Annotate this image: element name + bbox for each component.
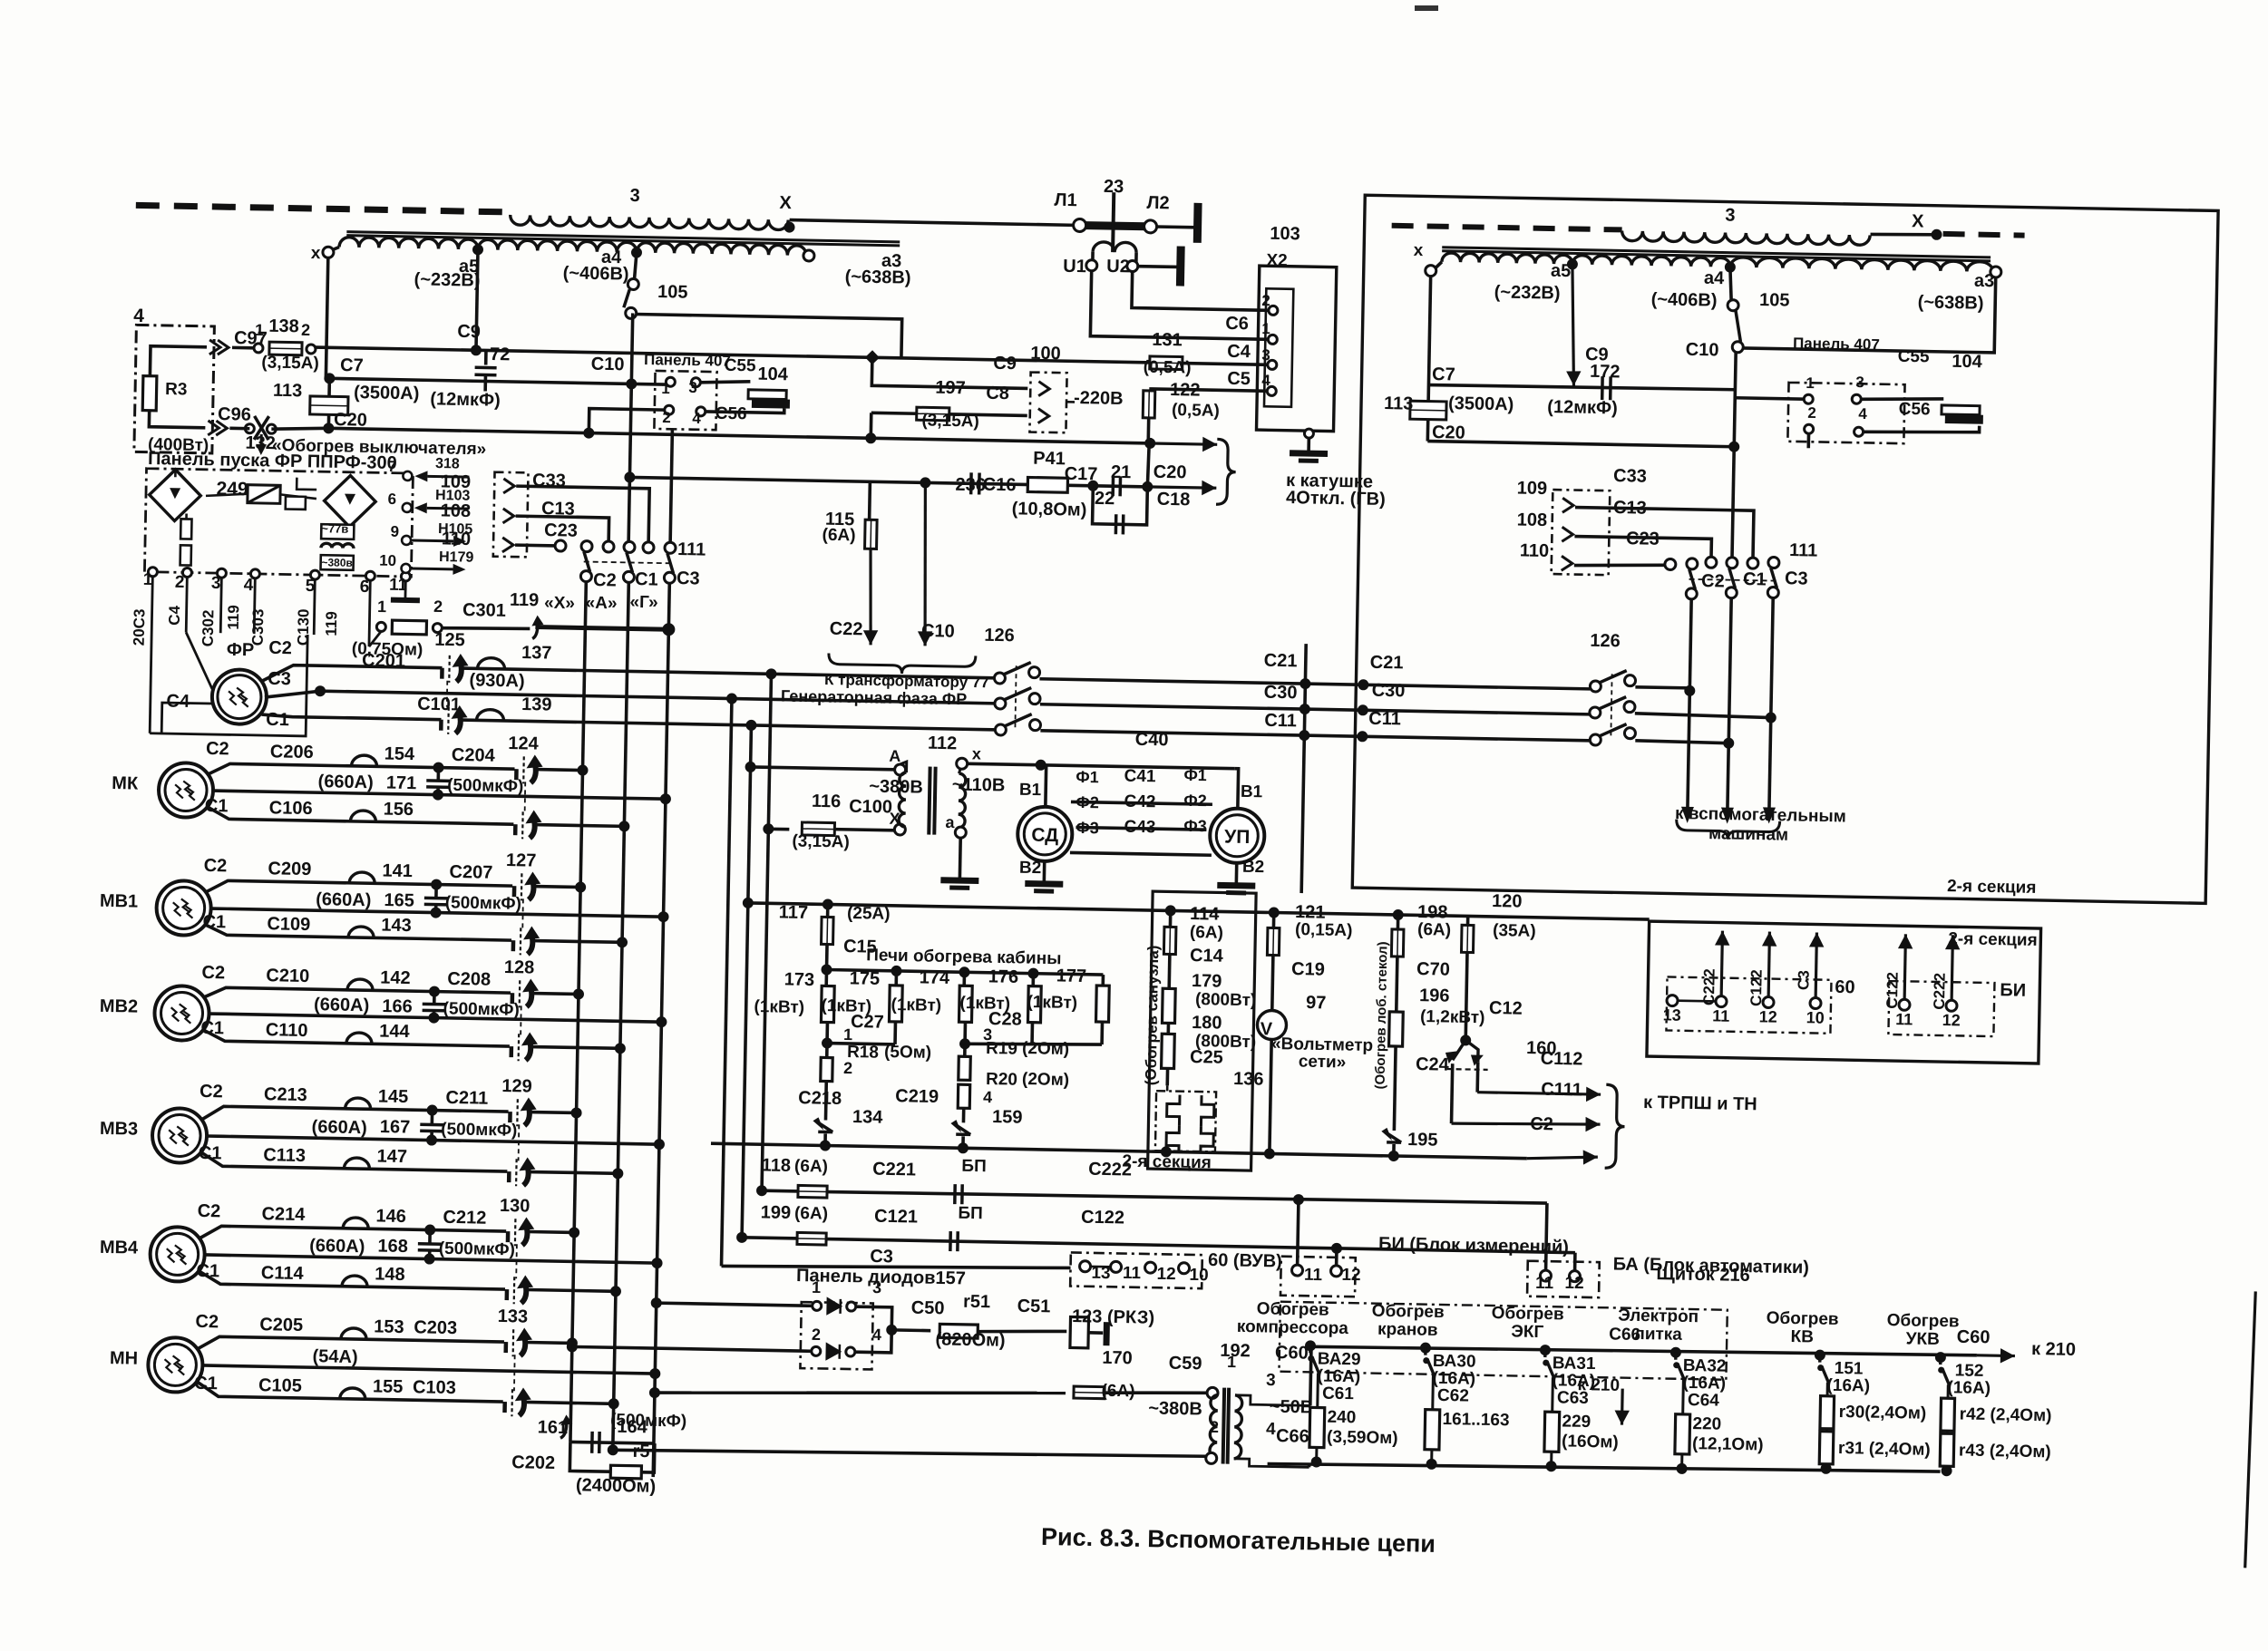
bottom contacts <box>580 570 591 581</box>
svg-text:170: 170 <box>1102 1348 1133 1369</box>
double switch 160 <box>1453 1040 1478 1063</box>
svg-text:3: 3 <box>211 574 221 593</box>
svg-text:124: 124 <box>508 733 540 754</box>
brace k TRPSh <box>1605 1084 1626 1168</box>
transformer 112 secondary <box>958 773 966 828</box>
svg-text:C20: C20 <box>1153 462 1187 483</box>
svg-text:(25А): (25А) <box>847 904 891 924</box>
МВ2 C1 wire <box>203 1030 510 1046</box>
terminal U1 <box>1086 260 1097 271</box>
motor UP <box>1210 808 1265 863</box>
svg-text:103: 103 <box>1270 224 1300 245</box>
terminal C23 <box>555 540 566 551</box>
svg-text:C9: C9 <box>457 322 481 342</box>
svg-text:180: 180 <box>1192 1013 1222 1034</box>
svg-text:C206: C206 <box>270 742 314 762</box>
svg-text:к 210: к 210 <box>2031 1339 2076 1360</box>
svg-text:U1: U1 <box>1063 257 1086 277</box>
svg-text:C2: C2 <box>268 638 292 658</box>
svg-text:(16А): (16А) <box>1826 1376 1870 1396</box>
svg-text:C222: C222 <box>1700 968 1718 1005</box>
svg-text:x: x <box>1414 241 1424 260</box>
svg-text:12: 12 <box>1341 1266 1361 1285</box>
svg-text:~380в: ~380в <box>321 556 353 569</box>
capacitor 171 500mkF <box>433 762 443 773</box>
svg-text:318: 318 <box>435 456 460 471</box>
svg-text:СД: СД <box>1031 825 1058 847</box>
wire C97 to fuse 138 <box>232 346 254 350</box>
svg-text:153: 153 <box>374 1316 404 1337</box>
vertical X5 (C1 phase) <box>742 725 751 1238</box>
svg-text:C214: C214 <box>261 1204 306 1225</box>
wire X to L1 <box>790 220 1075 226</box>
МВ4 C1 wire <box>199 1271 505 1289</box>
wire C10 arrow <box>918 482 936 646</box>
svg-text:(~406В): (~406В) <box>1651 289 1718 310</box>
svg-text:C16: C16 <box>983 475 1017 496</box>
svg-text:6: 6 <box>360 578 370 597</box>
svg-text:C56: C56 <box>1899 400 1931 420</box>
svg-text:171: 171 <box>386 773 417 794</box>
svg-text:13: 13 <box>1091 1264 1111 1283</box>
svg-text:C105: C105 <box>258 1375 302 1396</box>
svg-text:C201: C201 <box>362 651 405 672</box>
dashed connector BI (sec2) <box>1888 981 1994 1036</box>
svg-text:C1: C1 <box>1743 569 1767 589</box>
sec2 x wire down <box>1427 277 1430 442</box>
wire from bus to fuse 120 <box>1466 916 1470 927</box>
svg-text:Обогрев: Обогрев <box>1372 1302 1445 1322</box>
svg-text:118: 118 <box>762 1155 792 1176</box>
svg-text:С301: С301 <box>462 600 506 621</box>
svg-text:(6А): (6А) <box>822 526 855 546</box>
svg-text:C218: C218 <box>798 1088 842 1109</box>
wire C8 <box>871 411 919 415</box>
svg-text:Панель 407: Панель 407 <box>644 351 731 370</box>
svg-text:(54А): (54А) <box>312 1346 357 1367</box>
ground bar right of L2 <box>1156 225 1196 228</box>
sec2 wires C33 C13 C23 <box>1574 508 1754 558</box>
voltmeter 97 <box>1257 1010 1287 1040</box>
current transformer 23 winding <box>1093 242 1136 253</box>
svg-text:«Г»: «Г» <box>629 593 658 613</box>
svg-text:C110: C110 <box>266 1020 308 1041</box>
FR C3 wire <box>265 690 996 711</box>
svg-text:C12: C12 <box>1489 998 1523 1019</box>
svg-text:136: 136 <box>1233 1069 1264 1090</box>
svg-text:С66: С66 <box>1609 1325 1640 1345</box>
heater column fuse 117 <box>823 898 833 909</box>
svg-text:Обогрев: Обогрев <box>1767 1309 1839 1329</box>
svg-text:C11: C11 <box>1368 709 1401 730</box>
svg-text:С61: С61 <box>1322 1384 1355 1404</box>
svg-text:12: 12 <box>1564 1274 1584 1293</box>
wire C33 <box>515 486 649 543</box>
svg-text:C2: C2 <box>1701 571 1725 591</box>
svg-text:133: 133 <box>498 1306 529 1327</box>
svg-text:4: 4 <box>872 1326 881 1344</box>
svg-text:C208: C208 <box>447 969 491 990</box>
capacitor 166 500mkF <box>429 986 440 996</box>
МВ1 C2 wire <box>206 880 512 898</box>
svg-text:(12,1Ом): (12,1Ом) <box>1692 1434 1764 1454</box>
svg-text:147: 147 <box>376 1146 407 1167</box>
k 210 arrow at plitka <box>1614 1389 1630 1425</box>
wire diamond down to C9 connector line <box>871 357 1028 388</box>
svg-text:C28: C28 <box>988 1009 1022 1030</box>
svg-text:С64: С64 <box>1688 1391 1720 1411</box>
terminal a3 <box>803 250 814 261</box>
bus A <box>613 582 629 1450</box>
svg-text:В1: В1 <box>1019 781 1042 800</box>
svg-text:116: 116 <box>812 792 842 812</box>
svg-text:C5: C5 <box>1227 369 1251 389</box>
wire U2 to ground bar <box>1138 265 1178 268</box>
sec2 wire pin2 down <box>1806 433 1810 448</box>
svg-text:7: 7 <box>387 458 396 475</box>
bottom bus Shchitok <box>1268 1459 1941 1476</box>
pprf pins 7/6/9/10 with arrows <box>403 471 412 481</box>
node on C20 bus (panel 407 pin2 branch) <box>583 427 594 438</box>
arrow C96 <box>208 421 227 435</box>
svg-text:4: 4 <box>1261 372 1270 389</box>
svg-text:«А»: «А» <box>585 594 617 614</box>
svg-text:229: 229 <box>1562 1412 1591 1432</box>
svg-text:2: 2 <box>1807 404 1816 422</box>
svg-text:БИ (Блок измерений): БИ (Блок измерений) <box>1378 1234 1569 1258</box>
svg-text:C2: C2 <box>201 963 225 983</box>
svg-text:ЭКГ: ЭКГ <box>1511 1322 1543 1342</box>
svg-text:141: 141 <box>382 860 413 881</box>
svg-text:C27: C27 <box>851 1012 884 1033</box>
svg-text:131: 131 <box>1152 330 1183 351</box>
sec2 panel 407 <box>1787 383 1904 443</box>
svg-text:167: 167 <box>380 1117 411 1138</box>
sec2 brace <box>1676 820 1779 840</box>
svg-text:119: 119 <box>323 611 340 636</box>
VUV connector 60 <box>1070 1252 1202 1288</box>
bus1 C4 line <box>316 347 1269 364</box>
svg-text:C42: C42 <box>1124 792 1155 812</box>
svg-text:138: 138 <box>268 316 299 337</box>
resistor r5 0,75Om <box>376 622 385 631</box>
svg-text:(0,5А): (0,5А) <box>1144 358 1192 378</box>
sec2 arrows down <box>1681 807 1694 823</box>
2-ya sekciya heater box <box>1148 891 1257 1170</box>
svg-text:а5: а5 <box>1551 261 1572 281</box>
svg-text:C1: C1 <box>266 710 289 730</box>
svg-text:129: 129 <box>501 1076 532 1097</box>
pin stubs with cable labels <box>150 577 152 733</box>
svg-text:В1: В1 <box>1241 782 1263 801</box>
wire C5 to pin4 <box>1149 389 1267 391</box>
svg-text:В2: В2 <box>1242 858 1265 877</box>
wire x down to C7 line <box>326 257 327 378</box>
125 mechanical link <box>446 681 449 707</box>
svg-text:C25: C25 <box>1190 1047 1223 1068</box>
wire C23 <box>515 543 555 547</box>
svg-text:112: 112 <box>928 733 958 754</box>
svg-text:165: 165 <box>384 890 414 911</box>
sec2 C56 <box>1864 423 1980 433</box>
svg-text:C213: C213 <box>264 1084 307 1105</box>
wire x to SD B1 <box>968 763 1041 764</box>
svg-text:C7: C7 <box>1432 364 1455 384</box>
fuse 138 (3,15A) <box>269 342 302 355</box>
vertical X6 (C2 phase) <box>762 674 771 1190</box>
svg-text:2: 2 <box>812 1326 821 1344</box>
svg-text:УП: УП <box>1224 827 1251 849</box>
svg-text:(500мкФ): (500мкФ) <box>441 1120 518 1141</box>
svg-text:C122: C122 <box>1081 1208 1124 1229</box>
svg-text:Н103: Н103 <box>435 488 471 504</box>
sec2 windings <box>1426 265 1436 276</box>
svg-text:146: 146 <box>375 1206 406 1227</box>
svg-text:11: 11 <box>1712 1006 1729 1025</box>
svg-text:кранов: кранов <box>1377 1320 1438 1340</box>
diode row 1 <box>651 1297 662 1308</box>
svg-text:10: 10 <box>1806 1008 1825 1026</box>
svg-text:1: 1 <box>1261 320 1270 337</box>
svg-text:164: 164 <box>617 1417 648 1438</box>
svg-text:r42 (2,4Ом): r42 (2,4Ом) <box>1960 1404 2052 1425</box>
node C10 arrow branch <box>920 477 930 488</box>
svg-text:C112: C112 <box>1540 1049 1582 1070</box>
svg-text:C30: C30 <box>1372 681 1406 702</box>
sec2 wire pin1 <box>1735 398 1804 399</box>
svg-text:C2: C2 <box>593 570 617 590</box>
svg-text:U2: U2 <box>1106 257 1130 277</box>
sec2 vertical 105-C10 <box>1732 353 1736 558</box>
svg-text:Н105: Н105 <box>438 521 473 538</box>
svg-text:Обогрев: Обогрев <box>1886 1311 1959 1331</box>
svg-text:127: 127 <box>506 850 537 871</box>
C2 arrow to TRPSh <box>1527 1149 1598 1165</box>
heater 177 <box>1101 975 1105 986</box>
brace k katushke <box>1216 439 1236 504</box>
svg-text:C6: C6 <box>1225 314 1249 334</box>
svg-text:(660А): (660А) <box>311 1117 367 1138</box>
terminal U2 <box>1127 260 1138 271</box>
svg-text:11: 11 <box>1535 1274 1554 1293</box>
svg-text:C1: C1 <box>202 912 226 932</box>
svg-text:12: 12 <box>1759 1007 1777 1025</box>
FR motor <box>211 669 267 724</box>
fuse 115 (6A) wire C22 <box>868 481 871 520</box>
svg-text:2: 2 <box>433 597 443 616</box>
svg-text:(500мкФ): (500мкФ) <box>447 776 524 797</box>
svg-text:195: 195 <box>1407 1130 1438 1151</box>
МВ4 C3 wire <box>205 1255 657 1263</box>
FR C1 wire <box>262 714 442 720</box>
svg-text:C109: C109 <box>267 914 310 935</box>
svg-text:12: 12 <box>1942 1011 1961 1029</box>
svg-text:C1: C1 <box>200 1018 224 1038</box>
dashed connector 60 (sec2) <box>1666 976 1831 1033</box>
scan speck top <box>1415 5 1438 11</box>
svg-text:111: 111 <box>1789 540 1818 561</box>
Shchitok 216 dashed box <box>1279 1302 1727 1380</box>
svg-text:1: 1 <box>843 1025 852 1044</box>
svg-text:C121: C121 <box>874 1207 918 1228</box>
svg-text:220: 220 <box>1692 1414 1721 1434</box>
svg-text:C18: C18 <box>1157 490 1191 510</box>
svg-text:МВ2: МВ2 <box>100 996 139 1017</box>
svg-text:C20: C20 <box>334 410 367 431</box>
svg-text:(~406В): (~406В) <box>563 263 629 284</box>
node C10 <box>626 378 637 389</box>
МВ1 C1 wire <box>205 925 511 940</box>
svg-text:Ф2: Ф2 <box>1076 793 1099 811</box>
motor МВ2 <box>154 986 209 1041</box>
svg-text:R19: R19 <box>986 1039 1017 1059</box>
svg-text:(12мкФ): (12мкФ) <box>1547 397 1618 418</box>
svg-text:148: 148 <box>375 1264 405 1285</box>
vertical X4 (C3 phase) <box>722 699 732 1267</box>
svg-text:175: 175 <box>850 968 881 989</box>
FR wires left <box>150 632 307 736</box>
svg-text:C1: C1 <box>196 1261 219 1281</box>
svg-text:C221: C221 <box>872 1160 916 1180</box>
МВ3 C3 wire <box>207 1136 659 1144</box>
capacitor 236 C16 <box>971 472 979 494</box>
diode row 2 <box>567 1341 578 1352</box>
svg-text:(16А): (16А) <box>1947 1378 1991 1398</box>
svg-text:108: 108 <box>1517 510 1548 530</box>
svg-text:БИ: БИ <box>2000 980 2026 1001</box>
fuse 113 (3500A) <box>328 378 329 428</box>
wire C20 junction down to C18 junction <box>1147 443 1149 487</box>
ground under a <box>959 838 962 879</box>
svg-text:C4: C4 <box>166 692 190 712</box>
C112 arrow <box>1475 1063 1479 1093</box>
scan artifact line right edge <box>2245 1291 2256 1568</box>
svg-text:C1: C1 <box>199 1143 222 1163</box>
svg-text:2: 2 <box>1261 292 1270 309</box>
svg-text:72: 72 <box>490 345 511 364</box>
svg-text:C43: C43 <box>1124 818 1155 838</box>
svg-text:(6А): (6А) <box>794 1204 828 1224</box>
knife switch 23 (L1-L2) <box>1073 219 1085 231</box>
node C3 line to bus X4 <box>726 693 737 704</box>
svg-text:C21: C21 <box>1264 651 1298 672</box>
МВ4 C2 wire <box>200 1226 506 1244</box>
motor МН <box>148 1337 203 1393</box>
svg-text:С8: С8 <box>986 384 1009 403</box>
rectifier diamond 1 <box>150 470 201 521</box>
svg-text:C56: C56 <box>715 404 747 424</box>
chassis bar pin 11 <box>391 597 420 604</box>
sec2 switch 111 <box>1687 558 1698 569</box>
svg-text:Печи обогрева кабины: Печи обогрева кабины <box>866 946 1062 968</box>
heater 179 <box>1162 988 1175 1023</box>
svg-text:4: 4 <box>983 1088 992 1106</box>
svg-text:С62: С62 <box>1437 1386 1469 1406</box>
192 line 2 <box>608 1444 618 1455</box>
wire BA pin12 to C122 row <box>1573 1253 1577 1271</box>
internal wires pprf <box>174 469 177 477</box>
fuse 199 row C121-C122 <box>736 1232 747 1243</box>
svg-text:а: а <box>945 813 955 831</box>
svg-text:(10,8Ом): (10,8Ом) <box>1012 499 1087 520</box>
small resistors R3 R1 <box>180 519 191 539</box>
svg-text:Л1: Л1 <box>1054 190 1077 210</box>
svg-text:С60: С60 <box>1957 1327 1991 1348</box>
svg-text:176: 176 <box>988 966 1019 987</box>
wire 105 to bus1 <box>635 315 902 358</box>
svg-text:113: 113 <box>1384 393 1414 414</box>
svg-text:C2: C2 <box>198 1201 221 1221</box>
svg-text:C113: C113 <box>263 1145 306 1166</box>
fuse 122 (0,5A) <box>1143 391 1155 418</box>
capacitor 168 500mkF <box>424 1224 435 1235</box>
svg-text:110: 110 <box>1520 540 1550 561</box>
МН C2 wire <box>198 1336 504 1355</box>
svg-text:МВ1: МВ1 <box>100 891 139 912</box>
svg-text:197: 197 <box>935 378 966 399</box>
svg-text:X: X <box>779 193 792 213</box>
arrow C222 up (sec2 BI pin 12) <box>1944 935 1961 1000</box>
svg-text:108: 108 <box>441 500 472 521</box>
svg-text:113: 113 <box>273 381 303 402</box>
sec2 C9 arrow <box>1566 264 1583 385</box>
МВ2 C3 wire <box>209 1014 662 1022</box>
junction a5-a4 <box>472 244 483 255</box>
svg-text:(660А): (660А) <box>317 772 374 792</box>
svg-text:192: 192 <box>1220 1341 1251 1362</box>
heater 175 <box>894 971 898 986</box>
wire bus X6 to fuse 116 <box>763 823 774 834</box>
wire BA pin11 to C222 row <box>1546 1203 1547 1270</box>
svg-text:(3,15А): (3,15А) <box>261 353 319 373</box>
svg-text:97: 97 <box>1306 993 1327 1013</box>
node C1 line to bus X5 <box>745 720 756 731</box>
svg-text:МН: МН <box>110 1348 139 1369</box>
svg-text:Щиток 216: Щиток 216 <box>1656 1264 1750 1286</box>
svg-text:1: 1 <box>1806 374 1815 392</box>
svg-text:1: 1 <box>661 380 670 397</box>
capacitor 167 500mkF <box>426 1104 437 1115</box>
svg-text:139: 139 <box>521 694 552 715</box>
svg-text:(16Ом): (16Ом) <box>1562 1432 1619 1452</box>
svg-text:120: 120 <box>1492 891 1523 912</box>
svg-text:C59: C59 <box>1169 1354 1202 1374</box>
svg-text:13: 13 <box>1663 1005 1681 1024</box>
svg-text:(12мкФ): (12мкФ) <box>430 389 501 410</box>
МВ2 C2 wire <box>204 987 511 1003</box>
svg-text:114: 114 <box>1190 904 1221 925</box>
svg-text:а4: а4 <box>1704 268 1726 288</box>
svg-text:174: 174 <box>919 967 950 988</box>
МВ3 C2 wire <box>201 1106 508 1125</box>
svg-text:117: 117 <box>779 902 809 923</box>
svg-text:11: 11 <box>1123 1264 1142 1283</box>
svg-text:Н179: Н179 <box>439 549 474 566</box>
svg-text:к ТРПШ и ТН: к ТРПШ и ТН <box>1643 1093 1757 1114</box>
svg-text:C55: C55 <box>724 356 756 376</box>
wire bus X5 to A <box>745 762 755 772</box>
svg-text:(~232В): (~232В) <box>1494 282 1561 303</box>
wire C13 <box>515 516 608 542</box>
svg-text:(Обогрев санузла): (Обогрев санузла) <box>1143 945 1163 1085</box>
svg-text:C10: C10 <box>591 354 625 375</box>
svg-text:249: 249 <box>216 479 248 500</box>
connector 136 <box>1155 1091 1216 1151</box>
svg-text:119: 119 <box>510 590 540 611</box>
ground blade 134 <box>818 1122 832 1131</box>
svg-text:R3: R3 <box>165 380 188 399</box>
svg-text:Ф3: Ф3 <box>1076 819 1099 837</box>
